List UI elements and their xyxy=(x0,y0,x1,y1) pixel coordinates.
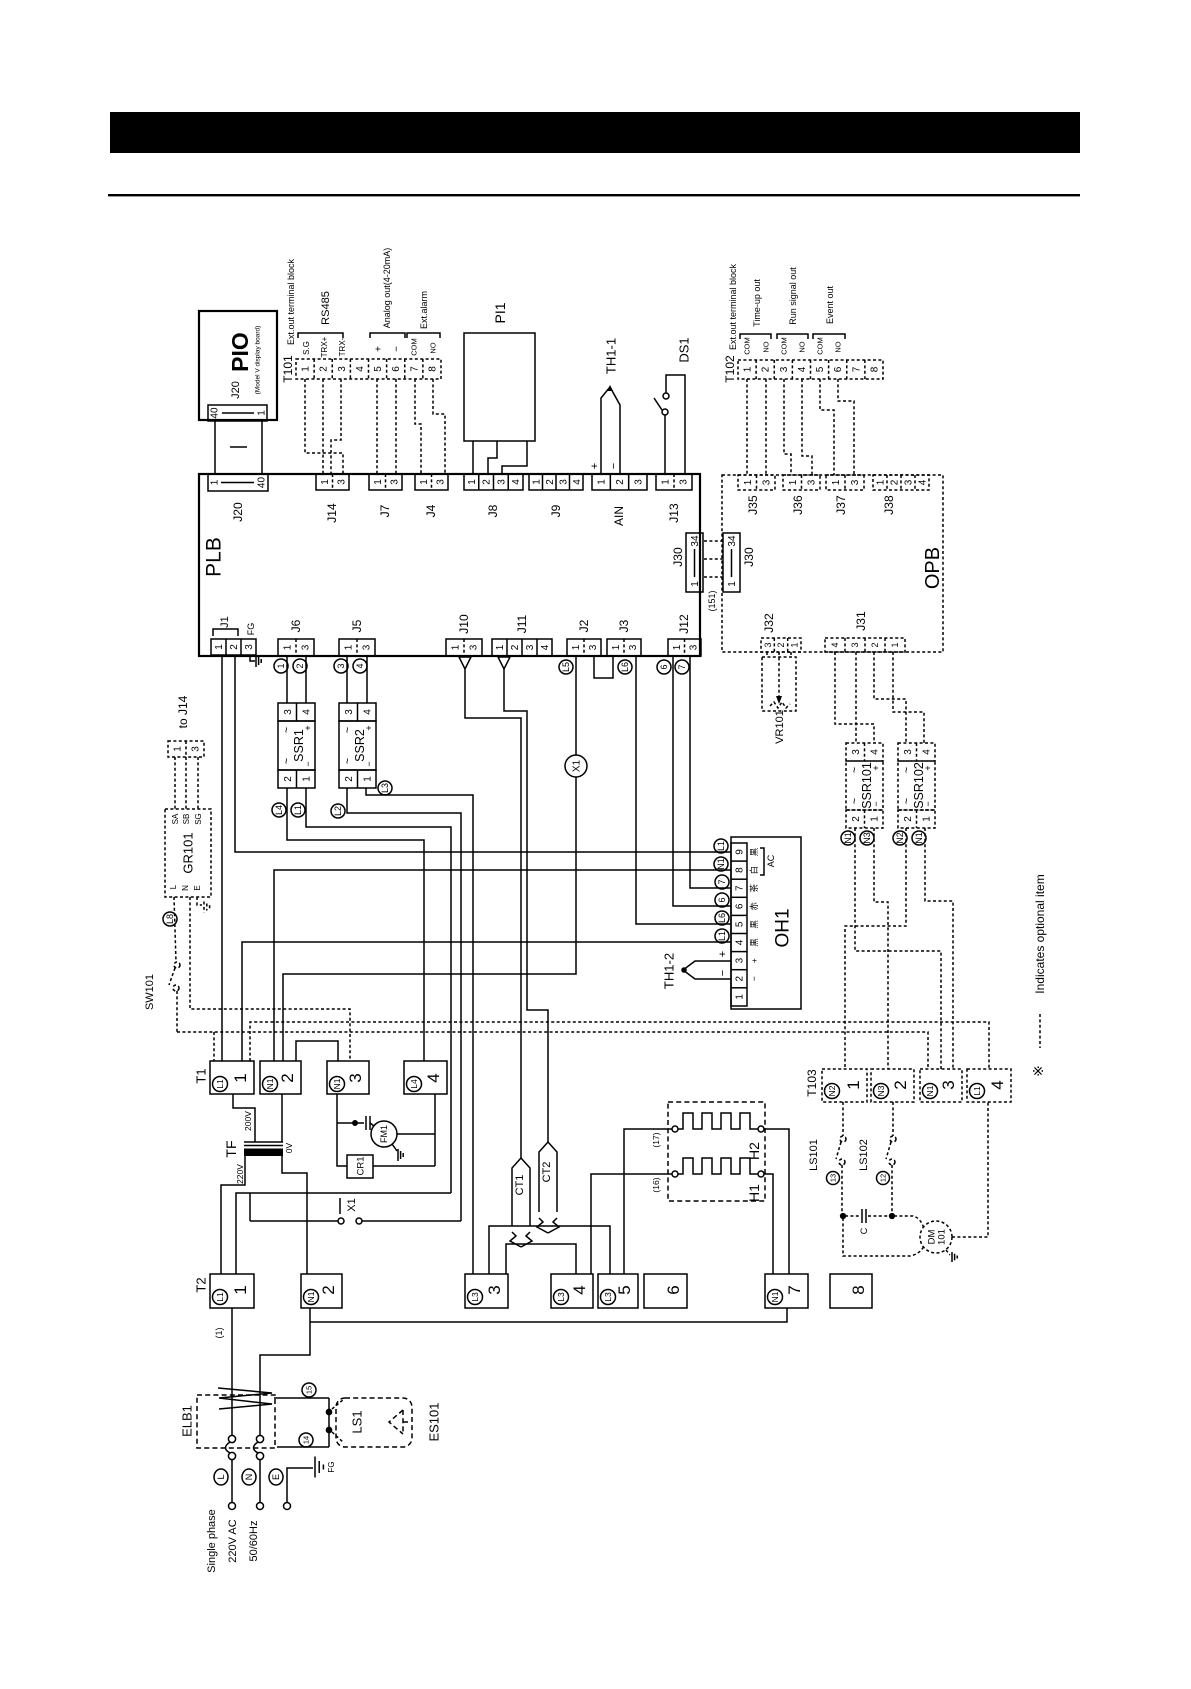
svg-text:L6: L6 xyxy=(620,662,630,672)
svg-text:L6: L6 xyxy=(717,913,727,923)
svg-text:X1: X1 xyxy=(346,1198,358,1211)
wire L1 bus (T2-1) xyxy=(236,1193,451,1274)
node 7 (J12-3) xyxy=(675,660,689,674)
svg-text:J32: J32 xyxy=(762,613,776,633)
svg-text:茶: 茶 xyxy=(749,883,759,892)
svg-text:1: 1 xyxy=(231,1285,250,1294)
svg-text:H1: H1 xyxy=(746,1184,762,1202)
svg-text:1: 1 xyxy=(495,644,506,650)
recorder GR101 xyxy=(165,809,211,897)
connector J1 xyxy=(211,639,256,655)
breaker ELB1 xyxy=(197,1395,275,1448)
svg-text:4: 4 xyxy=(918,479,929,485)
wire T101-6 to J7-3 xyxy=(395,379,397,474)
svg-text:J13: J13 xyxy=(667,503,681,523)
svg-text:+: + xyxy=(871,765,881,770)
T2 terminal 3 xyxy=(465,1274,508,1308)
node N1 (SSR101-2) xyxy=(841,831,855,845)
wire bus branch to X1 xyxy=(249,1193,251,1221)
svg-text:7: 7 xyxy=(851,366,862,372)
wire J1-1 to T1-1 xyxy=(221,656,223,1061)
svg-text:AC: AC xyxy=(766,854,776,867)
svg-text:TH1-2: TH1-2 xyxy=(662,953,677,989)
PIO display board xyxy=(199,311,277,420)
svg-text:3: 3 xyxy=(558,479,569,485)
Time-up out bracket xyxy=(740,334,771,339)
wire J12-3 to OH1-7 xyxy=(690,656,731,888)
svg-text:VR101: VR101 xyxy=(774,710,786,744)
connector J38 xyxy=(873,475,929,490)
motor DM101 xyxy=(920,1221,952,1253)
T2 terminal 7 xyxy=(765,1274,808,1308)
svg-text:2: 2 xyxy=(295,663,305,668)
node L5 (J2-1) xyxy=(559,660,573,674)
wire T1-1 to OH1-4 (L1) xyxy=(242,942,731,1061)
wire bus stub to T1-1 xyxy=(213,1032,215,1061)
svg-text:※: ※ xyxy=(1030,1065,1046,1077)
wire T101-3 to J14-2 xyxy=(331,379,341,474)
svg-text:(17): (17) xyxy=(651,1132,661,1147)
svg-text:1: 1 xyxy=(257,410,268,416)
svg-text:40: 40 xyxy=(257,477,268,489)
svg-text:2: 2 xyxy=(319,1285,338,1294)
wire J2-3 to J3-1 jumper xyxy=(594,656,613,678)
svg-text:SA: SA xyxy=(171,813,180,824)
svg-text:T101: T101 xyxy=(281,355,295,383)
svg-text:+: + xyxy=(923,765,933,770)
svg-text:2: 2 xyxy=(319,366,330,372)
RS485 bracket xyxy=(298,333,343,338)
wire J12-1 to OH1-6 xyxy=(673,656,731,906)
svg-text:2: 2 xyxy=(482,479,493,485)
svg-text:1: 1 xyxy=(362,776,373,782)
ground (FM1) xyxy=(392,1144,397,1151)
svg-text:3: 3 xyxy=(336,663,346,668)
svg-text:8: 8 xyxy=(427,366,438,372)
svg-text:J2: J2 xyxy=(577,619,591,632)
svg-text:4: 4 xyxy=(797,366,808,372)
svg-text:1: 1 xyxy=(735,994,746,1000)
wire SSR2-1 to T2-3 (L3) xyxy=(366,788,473,1274)
wire T1-2 to OH1-8 (N1) xyxy=(274,870,731,1061)
thermocouple TH1-1 xyxy=(601,387,620,474)
svg-text:1: 1 xyxy=(283,644,294,650)
svg-text:13: 13 xyxy=(829,1174,838,1182)
connector J30 (OPB side) xyxy=(723,533,740,592)
connector J11 xyxy=(492,639,552,656)
svg-text:OPB: OPB xyxy=(922,547,944,589)
T2 terminal 4 xyxy=(551,1274,593,1308)
T1 terminal 3 xyxy=(327,1061,369,1094)
svg-text:~: ~ xyxy=(342,727,354,733)
svg-text:2: 2 xyxy=(278,1073,297,1082)
node L3 (SSR2-1) xyxy=(378,781,392,795)
svg-text:101: 101 xyxy=(936,1229,947,1245)
wire T101-2 to J14-1 xyxy=(322,379,324,474)
wire stub GR101 SA xyxy=(174,757,176,809)
svg-text:2: 2 xyxy=(776,642,786,647)
svg-text:SB: SB xyxy=(182,814,191,825)
svg-text:5: 5 xyxy=(615,1285,634,1294)
svg-text:COM: COM xyxy=(743,337,752,355)
node 13 xyxy=(827,1172,840,1185)
svg-text:L1: L1 xyxy=(293,805,303,815)
svg-text:1: 1 xyxy=(844,1080,863,1089)
svg-text:1: 1 xyxy=(571,644,582,650)
svg-text:1: 1 xyxy=(214,644,225,650)
svg-text:1: 1 xyxy=(743,479,754,485)
svg-text:1: 1 xyxy=(231,1073,250,1082)
svg-text:L1: L1 xyxy=(215,1079,225,1089)
wire junction branch xyxy=(337,1122,364,1124)
connector to J14 (GR101) xyxy=(168,741,204,757)
svg-text:(1): (1) xyxy=(214,1327,224,1338)
svg-text:J11: J11 xyxy=(515,614,529,633)
svg-text:4: 4 xyxy=(869,749,880,755)
svg-text:3: 3 xyxy=(763,642,773,647)
svg-text:T103: T103 xyxy=(805,1069,819,1097)
svg-text:L1: L1 xyxy=(972,1086,982,1096)
svg-text:J7: J7 xyxy=(378,504,392,517)
svg-text:J8: J8 xyxy=(486,504,500,517)
node N3 (SSR101-1) xyxy=(860,831,874,845)
heater H1 xyxy=(672,1171,678,1177)
svg-text:3: 3 xyxy=(346,1073,365,1082)
svg-text:L: L xyxy=(169,884,178,889)
wire T102-1 to J35-1 xyxy=(746,379,748,475)
svg-text:LS1: LS1 xyxy=(350,1410,365,1433)
svg-text:(16): (16) xyxy=(651,1177,661,1192)
AC bracket xyxy=(760,848,764,875)
svg-text:TF: TF xyxy=(223,1140,239,1157)
svg-text:−: − xyxy=(608,463,620,469)
svg-text:N2: N2 xyxy=(895,832,905,844)
node L1 (SSR1-1) xyxy=(291,803,305,817)
svg-text:2: 2 xyxy=(283,776,294,782)
svg-text:3: 3 xyxy=(344,709,355,715)
svg-text:200V: 200V xyxy=(243,1111,253,1131)
svg-text:4: 4 xyxy=(988,1080,1007,1089)
svg-text:TRX-: TRX- xyxy=(338,337,347,356)
svg-text:Analog out(4-20mA): Analog out(4-20mA) xyxy=(382,248,392,329)
node N1 (OH1-8) xyxy=(714,857,728,871)
svg-text:NO: NO xyxy=(429,342,438,353)
svg-text:2: 2 xyxy=(510,644,521,650)
connector J37 xyxy=(826,475,864,490)
svg-text:3: 3 xyxy=(469,644,480,650)
svg-text:50/60Hz: 50/60Hz xyxy=(248,1521,260,1562)
svg-text:GR101: GR101 xyxy=(181,832,196,873)
svg-text:1: 1 xyxy=(173,746,184,752)
svg-text:3: 3 xyxy=(679,479,690,485)
ground (DM101) xyxy=(946,1250,950,1255)
svg-text:4: 4 xyxy=(355,366,366,372)
svg-text:Ext.alarm: Ext.alarm xyxy=(419,291,429,329)
svg-text:6: 6 xyxy=(717,897,727,902)
header rule xyxy=(108,194,1080,196)
svg-text:3: 3 xyxy=(903,749,914,755)
svg-text:NO: NO xyxy=(762,341,771,352)
svg-text:N1: N1 xyxy=(914,832,924,844)
wire T102-6 to J37-3 xyxy=(838,379,854,475)
svg-text:AIN: AIN xyxy=(612,506,626,526)
capacitor C xyxy=(845,1215,860,1217)
svg-text:~: ~ xyxy=(281,727,293,733)
svg-text:+: + xyxy=(589,463,601,469)
svg-text:−: − xyxy=(717,970,729,976)
wire N bus T2-7 to T2-2 xyxy=(310,1308,787,1322)
T103 terminal 2 xyxy=(871,1069,914,1102)
node 3 (J5-1) xyxy=(334,659,348,673)
node 4 (J5-3) xyxy=(353,659,367,673)
wire J6-1 to SSR1-3 xyxy=(286,656,288,703)
svg-text:1: 1 xyxy=(531,479,542,485)
limit switch LS102 xyxy=(892,1102,894,1136)
svg-text:4: 4 xyxy=(830,642,840,647)
svg-text:7: 7 xyxy=(735,885,746,891)
svg-text:PI1: PI1 xyxy=(492,302,508,323)
wire T101-8 to J4-3 xyxy=(433,379,445,474)
svg-text:L4: L4 xyxy=(409,1079,419,1089)
svg-text:4: 4 xyxy=(424,1073,443,1082)
node 15 xyxy=(302,1383,316,1397)
svg-text:SW101: SW101 xyxy=(144,974,156,1010)
svg-text:N1: N1 xyxy=(265,1078,275,1089)
thermocouple TH1-2 xyxy=(683,961,731,979)
connector J8 xyxy=(464,474,523,490)
wire J5-3 to SSR2-4 xyxy=(366,656,368,703)
T2 terminal 2 xyxy=(301,1274,342,1308)
svg-text:4: 4 xyxy=(572,479,583,485)
svg-text:NO: NO xyxy=(834,341,843,352)
svg-text:3: 3 xyxy=(761,479,772,485)
T103 terminal 3 xyxy=(920,1069,962,1102)
terminal N xyxy=(259,1460,261,1502)
svg-text:ES101: ES101 xyxy=(427,1402,442,1441)
wire T2-5 to H2 xyxy=(624,1129,672,1274)
wire T102-5 to J37-1 xyxy=(820,379,834,475)
svg-text:34: 34 xyxy=(727,535,738,547)
wire SSR1-1 to bus (L1) xyxy=(306,788,451,1193)
solid state relay SSR1 xyxy=(278,703,315,721)
OPB board outline xyxy=(722,475,943,652)
svg-text:2: 2 xyxy=(851,816,862,822)
wire DM101 to T103-4 xyxy=(952,1102,988,1237)
svg-text:COM: COM xyxy=(780,337,789,355)
switch DS1 xyxy=(664,415,666,474)
T103 terminal 1 xyxy=(822,1069,867,1102)
wire stub GR101 SG xyxy=(197,757,199,809)
svg-text:J36: J36 xyxy=(791,495,805,515)
T2 terminal 1 xyxy=(210,1274,254,1308)
svg-text:黒: 黒 xyxy=(749,938,759,947)
wire J10-1 to CT1 xyxy=(465,669,521,1158)
svg-text:3: 3 xyxy=(850,642,860,647)
svg-text:2: 2 xyxy=(615,479,626,485)
svg-text:J6: J6 xyxy=(289,619,303,632)
svg-text:1: 1 xyxy=(301,366,312,372)
svg-text:220V AC: 220V AC xyxy=(227,1519,239,1562)
svg-text:3: 3 xyxy=(496,479,507,485)
connector J14 xyxy=(316,474,349,490)
svg-text:−: − xyxy=(392,346,403,352)
svg-text:2: 2 xyxy=(903,816,914,822)
wire PI1 to J8-1 xyxy=(472,441,474,474)
svg-text:L3: L3 xyxy=(556,1292,566,1302)
wire J31-1 to SSR102-4 xyxy=(893,652,924,743)
svg-text:4: 4 xyxy=(362,709,373,715)
svg-text:to J14: to J14 xyxy=(176,695,190,728)
svg-text:PLB: PLB xyxy=(202,537,225,577)
svg-text:3: 3 xyxy=(362,644,373,650)
svg-text:J5: J5 xyxy=(350,619,364,632)
wire T102-2 to J35-3 xyxy=(765,379,767,475)
node 14 xyxy=(299,1433,313,1447)
wire J31-2 to SSR102-3 xyxy=(874,652,906,743)
svg-text:1: 1 xyxy=(451,644,462,650)
wire TF 220V to T2-1 xyxy=(221,1156,245,1274)
svg-text:7: 7 xyxy=(409,366,420,372)
wire T1-3 to junction xyxy=(337,1094,347,1166)
heater H2 xyxy=(672,1126,678,1132)
svg-text:2: 2 xyxy=(229,644,240,650)
svg-text:N1: N1 xyxy=(925,1085,935,1096)
connector AIN xyxy=(592,474,647,490)
junction triangle (J11-1) xyxy=(498,657,510,669)
wire stub GR101 SB xyxy=(185,757,187,809)
svg-text:N2: N2 xyxy=(827,1085,837,1096)
svg-text:FG: FG xyxy=(246,623,256,636)
wire J5-1 to SSR2-3 xyxy=(346,656,348,703)
svg-text:6: 6 xyxy=(664,1285,683,1294)
svg-text:1: 1 xyxy=(597,479,608,485)
wire H1 to T2-7 xyxy=(764,1174,773,1274)
svg-text:2: 2 xyxy=(870,642,880,647)
svg-text:1: 1 xyxy=(831,479,842,485)
svg-text:J38: J38 xyxy=(882,495,896,515)
terminal block T101 xyxy=(296,359,441,379)
node 1 (J6-1) xyxy=(274,659,288,673)
wire J6-3 to SSR1-4 xyxy=(305,656,307,703)
node N1 (SSR102-1) xyxy=(912,831,926,845)
svg-text:~: ~ xyxy=(849,767,861,773)
svg-text:2: 2 xyxy=(891,1080,910,1089)
J1 bracket xyxy=(213,629,238,636)
wire X1 contact to L2 xyxy=(362,1220,461,1222)
svg-text:4: 4 xyxy=(570,1285,589,1294)
svg-text:3: 3 xyxy=(633,479,644,485)
svg-text:3: 3 xyxy=(301,644,312,650)
junction dot LS102 xyxy=(890,1214,895,1219)
svg-text:N1: N1 xyxy=(716,858,726,870)
svg-text:4: 4 xyxy=(511,479,522,485)
svg-text:N: N xyxy=(244,1474,254,1481)
svg-text:DS1: DS1 xyxy=(677,337,692,362)
relay coil X1 xyxy=(575,656,577,755)
controller OH1 box xyxy=(731,837,801,1009)
Analog out bracket xyxy=(370,333,405,338)
transformer TF xyxy=(244,1141,283,1143)
svg-text:COM: COM xyxy=(410,338,419,356)
svg-text:3: 3 xyxy=(904,479,915,485)
ribbon cable wire xyxy=(214,421,216,474)
svg-text:S.G: S.G xyxy=(302,341,311,355)
svg-text:FM1: FM1 xyxy=(379,1125,389,1143)
limit switch LS101 xyxy=(842,1102,844,1136)
svg-text:1: 1 xyxy=(727,581,738,587)
svg-text:L5: L5 xyxy=(561,662,571,672)
svg-text:4: 4 xyxy=(355,663,365,668)
svg-text:7: 7 xyxy=(785,1285,804,1294)
svg-text:Time-up out: Time-up out xyxy=(752,279,762,327)
connector J7 xyxy=(369,474,402,490)
svg-text:8: 8 xyxy=(849,1285,868,1294)
svg-text:RS485: RS485 xyxy=(320,291,332,325)
solid state relay SSR102 xyxy=(898,743,935,761)
svg-text:J14: J14 xyxy=(325,503,339,523)
svg-text:3: 3 xyxy=(939,1080,958,1089)
terminal block T102 xyxy=(738,360,883,379)
wire J31-3 to SSR101-3 xyxy=(855,652,857,743)
svg-text:J4: J4 xyxy=(424,504,438,517)
svg-text:Single phase: Single phase xyxy=(206,1509,218,1573)
svg-text:N3: N3 xyxy=(876,1085,886,1096)
svg-text:3: 3 xyxy=(525,644,536,650)
svg-text:FG: FG xyxy=(327,1461,336,1472)
connector J10 xyxy=(446,639,482,656)
svg-text:J1: J1 xyxy=(219,616,231,628)
T2 terminal 8 xyxy=(830,1274,872,1308)
ribbon cable wire xyxy=(261,421,263,474)
svg-text:+: + xyxy=(749,958,759,963)
svg-text:220V: 220V xyxy=(235,1164,245,1184)
svg-text:L1: L1 xyxy=(215,1292,225,1302)
relay CR1 xyxy=(347,1155,373,1178)
connector J20 (PLB) xyxy=(208,474,268,491)
svg-text:3: 3 xyxy=(735,957,746,963)
svg-text:6: 6 xyxy=(833,366,844,372)
svg-text:1: 1 xyxy=(210,479,221,485)
wire T2-1 to ELB1 L pole xyxy=(231,1308,233,1435)
junction triangle (J10-1) xyxy=(459,657,471,669)
node L6 (J3-3) xyxy=(618,660,632,674)
PIO connector 40-1 xyxy=(208,405,267,421)
svg-text:Indicates optional item: Indicates optional item xyxy=(1033,874,1047,993)
svg-text:J10: J10 xyxy=(457,614,471,634)
ribbon cable mark xyxy=(230,446,247,448)
node 12 xyxy=(877,1172,890,1185)
svg-text:J20: J20 xyxy=(230,381,242,399)
svg-text:白: 白 xyxy=(749,866,759,875)
svg-text:~: ~ xyxy=(901,767,913,773)
wire T2-3 to T2-4 through CT1 xyxy=(506,1244,576,1274)
svg-text:4: 4 xyxy=(735,939,746,945)
svg-text:3: 3 xyxy=(851,749,862,755)
svg-text:14: 14 xyxy=(302,1436,311,1444)
svg-text:LS102: LS102 xyxy=(858,1139,870,1171)
svg-text:4: 4 xyxy=(540,644,551,650)
svg-text:1: 1 xyxy=(320,479,331,485)
wire T2-2 to ELB1 N pole xyxy=(260,1308,310,1435)
switch SW101 xyxy=(174,962,180,968)
svg-text:~: ~ xyxy=(901,798,913,804)
svg-text:N1: N1 xyxy=(306,1291,316,1302)
current transformer CT1 xyxy=(512,1158,521,1226)
svg-text:~: ~ xyxy=(281,758,293,764)
ground FG xyxy=(314,1457,316,1478)
svg-text:TRX+: TRX+ xyxy=(320,336,329,357)
svg-text:J37: J37 xyxy=(834,495,848,515)
